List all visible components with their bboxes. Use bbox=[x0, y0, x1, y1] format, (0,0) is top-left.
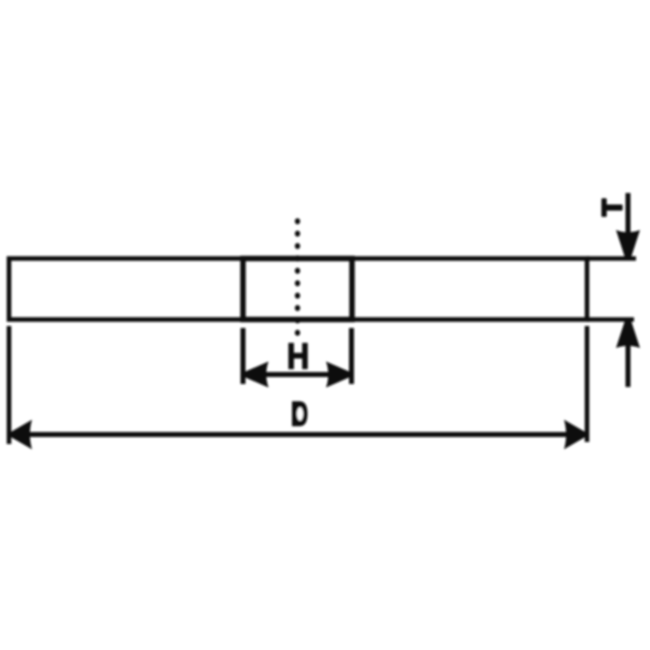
svg-text:T: T bbox=[596, 199, 627, 216]
svg-text:H: H bbox=[287, 337, 309, 377]
